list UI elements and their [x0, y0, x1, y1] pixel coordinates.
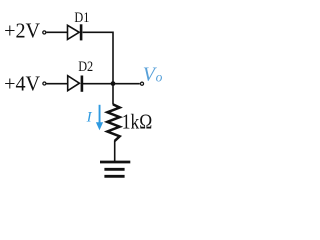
wire resistor bottom to ground [114, 141, 116, 161]
node +2V terminal [43, 31, 46, 34]
ground [100, 162, 130, 176]
resistor R 1k zigzag [107, 104, 119, 140]
wire D2 cathode through junction to Vo terminal [83, 83, 140, 85]
svg-text:+2V: +2V [4, 18, 40, 42]
diode D2 [68, 76, 82, 92]
current arrow I [96, 105, 103, 131]
wire +2V terminal to D1 anode [46, 31, 67, 33]
node +4V terminal [43, 82, 46, 85]
label Vo [143, 64, 163, 86]
svg-text:I: I [86, 110, 93, 126]
wire +4V terminal to D2 anode [46, 83, 67, 85]
svg-text:D2: D2 [78, 59, 93, 75]
wire D1 cathode to corner and down to junction [83, 32, 113, 83]
svg-text:D1: D1 [74, 10, 89, 26]
junction node dot [111, 81, 116, 86]
svg-text:1kΩ: 1kΩ [122, 110, 153, 134]
diode D1 [68, 24, 82, 40]
svg-text:o: o [156, 69, 163, 84]
node Vo terminal [140, 82, 143, 85]
wire junction down to resistor top [112, 84, 114, 105]
svg-text:+4V: +4V [4, 72, 40, 96]
